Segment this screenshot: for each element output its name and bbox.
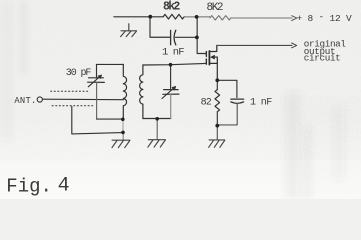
capacitor C2 30pF top plate [89,77,104,79]
inductor L1 primary coil [123,64,126,119]
junction node J6 tank top [169,63,173,67]
wire box1 left upper [96,64,98,77]
resistor R1 8k2 [163,14,184,19]
wire J1 down to bypass cap [150,17,170,38]
wire rail R1 to R2 [184,16,210,18]
capacitor C1 1nF (curved plate) [174,30,176,45]
wire R3 to J5 [216,112,218,126]
dotted alternative tap wire upper [51,90,90,92]
wire tank2 bottom [143,118,171,120]
svg-text:ANT.: ANT. [14,96,36,106]
wire J4 to C3 top [217,80,237,97]
wire junction A to junction B [122,119,124,132]
ground bottom right [209,140,225,147]
substrate arrow tail [214,56,217,58]
svg-text:1 nF: 1 nF [250,98,272,109]
transistor Q1 dual-gate MOSFET [206,45,217,80]
inductor L2 secondary coil [140,65,143,119]
junction node J1 [148,15,152,19]
capacitor C3 1nF top plate [231,98,244,100]
svg-text:1 nF: 1 nF [162,46,184,58]
junction node J7 tank bottom [155,117,159,121]
antenna terminal circle [37,97,42,102]
paper noise streaks [3,0,344,199]
junction node B [121,131,125,135]
capacitor C4 bottom plate [163,93,179,95]
svg-text:8k2: 8k2 [163,1,180,14]
capacitor C3 1nF curved plate [231,102,244,103]
gate2 bar [205,59,207,64]
wire top rail left segment [114,16,163,18]
svg-text:circuit: circuit [304,53,341,64]
resistor R3 82 [215,90,220,112]
wire box1 top [96,63,123,65]
svg-text:8K2: 8K2 [207,2,223,14]
output arrowhead [292,43,297,48]
wire source to R3/C3 [216,80,218,89]
capacitor C1 1nF (flat plate) [170,30,172,44]
wire branch down from dotted to ground wire [72,106,123,133]
resistor R2 8K2 [210,16,231,20]
wire cap to J3 [175,36,196,38]
wire drain to output arrow [217,44,292,46]
svg-text:4: 4 [58,174,70,197]
wire C3 bottom to J5 [217,103,237,125]
wire junction B to ground [122,132,124,140]
source stub [209,62,217,64]
junction node J4 source [215,78,219,82]
wire box1 bottom [97,118,123,120]
wire J5 to ground [216,126,218,140]
capacitor C4 top plate [164,89,179,91]
wire tank2 top / gate2 lead [143,63,206,65]
capacitor C4 tuning top lead [170,65,172,89]
wire rail to supply arrow [231,17,292,19]
dotted alternative tap wire lower [52,105,93,107]
capacitor C4 trimmer arrow [162,87,175,98]
junction node J3 [195,36,199,40]
capacitor C2 30pF bottom plate [88,81,105,83]
ground top-left [121,24,137,37]
svg-text:+ 8 - 12 V: + 8 - 12 V [297,11,353,24]
channel bar [208,51,210,65]
capacitor C2 trimmer arrow [88,76,100,87]
svg-text:30 pF: 30 pF [66,68,92,79]
source vertical [216,57,218,80]
wire J2 down to J3 [196,17,198,38]
substrate arrow of Q1 [210,55,215,60]
gate1 bar [205,52,207,57]
wire tank2 center to ground [156,119,158,140]
wire ANT to coil tap [43,98,124,101]
drain stub [209,45,216,51]
svg-text:Fig.: Fig. [6,176,52,198]
junction node J2 [195,15,199,19]
svg-text:82: 82 [201,97,212,108]
junction node J5 [215,124,219,128]
wire C4 bottom lead [170,94,172,118]
wire J3 down to gate1 [197,37,206,53]
ground below tank2 [148,140,165,147]
supply arrowhead [292,16,297,21]
ground below transformer [112,140,130,147]
wire box1 left lower [96,82,98,119]
junction node A [121,118,125,122]
